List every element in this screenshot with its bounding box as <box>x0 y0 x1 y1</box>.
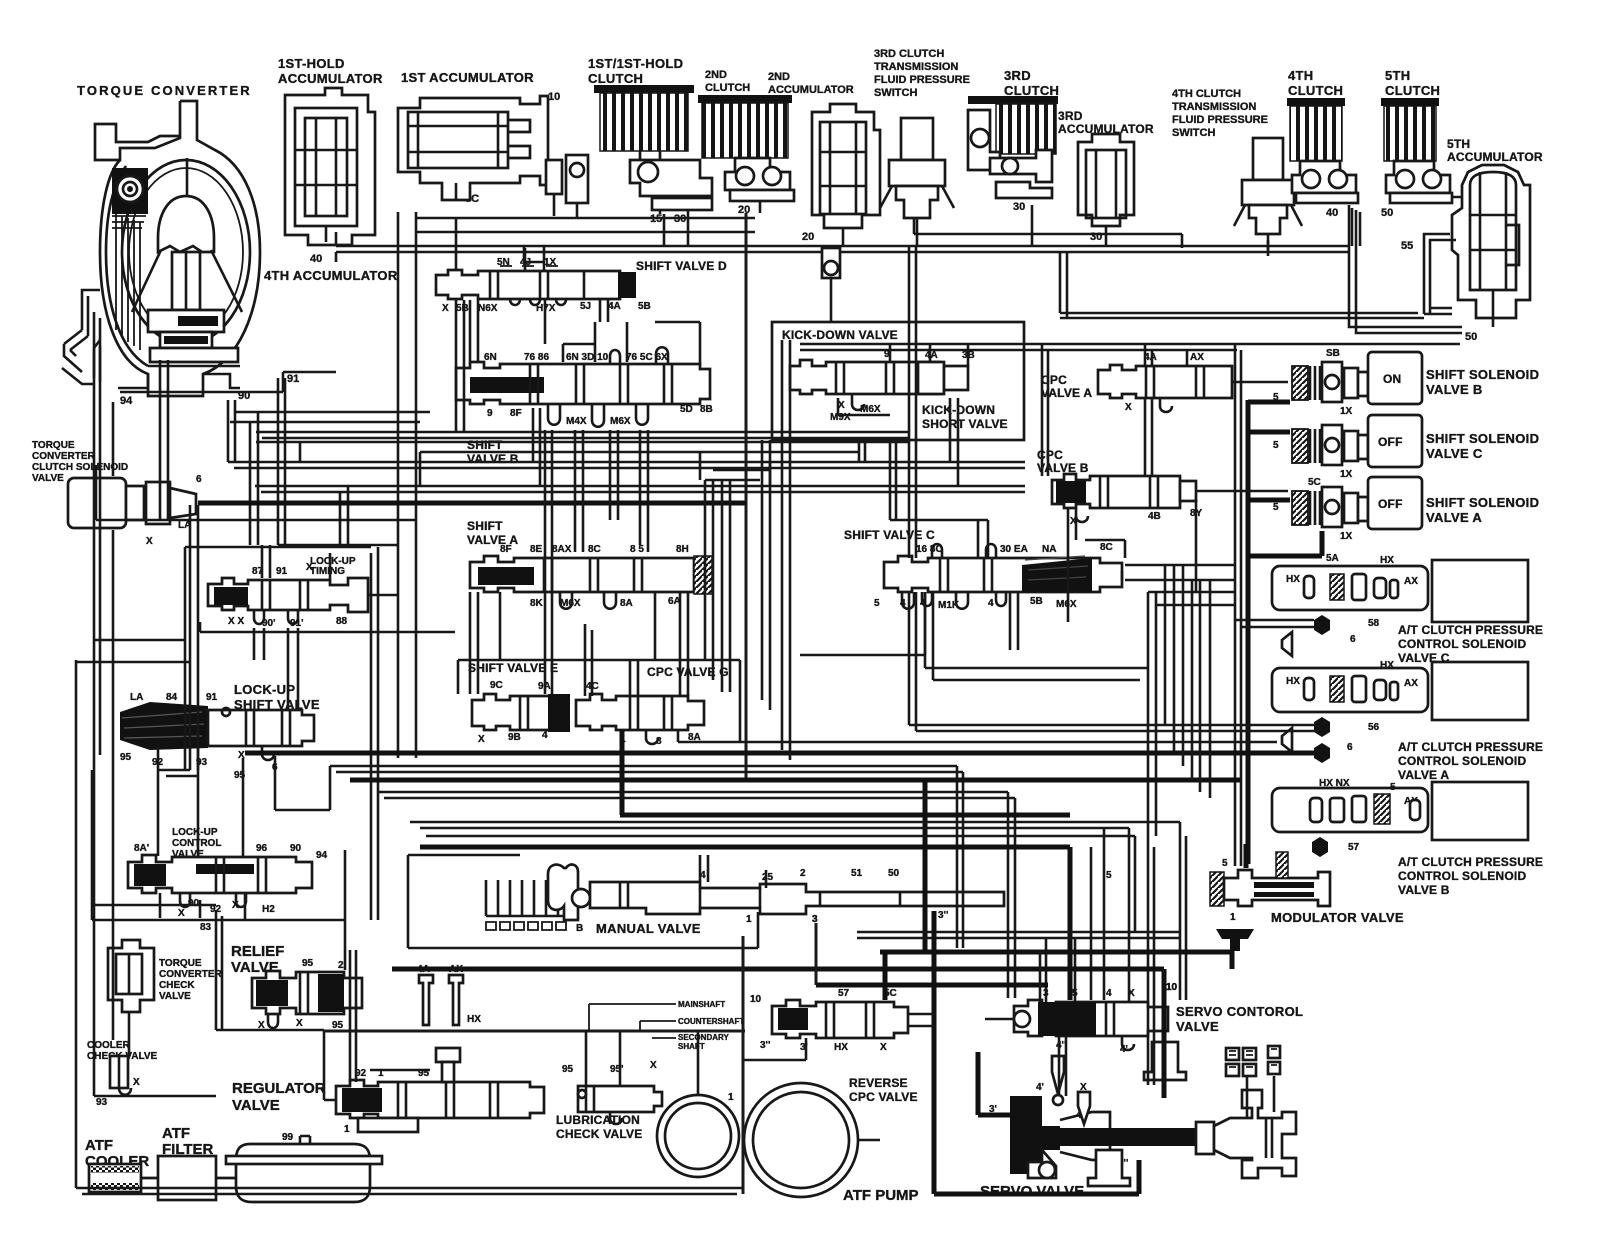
wire y822 <box>410 821 1180 824</box>
wire cpc B drops <box>1068 500 1196 622</box>
svg-text:2ND: 2ND <box>705 69 727 81</box>
neck striping <box>116 214 140 350</box>
bottom stack <box>148 310 224 332</box>
shift valve D <box>436 257 651 314</box>
svg-text:5TH: 5TH <box>1447 137 1470 151</box>
svg-text:76 86: 76 86 <box>524 352 549 363</box>
shift solenoid valve C assembly <box>1273 415 1422 480</box>
shift valve A <box>470 544 712 609</box>
2nd accumulator <box>812 104 880 242</box>
svg-text:3: 3 <box>812 914 818 925</box>
svg-text:50: 50 <box>1381 207 1393 219</box>
svg-text:AX: AX <box>1404 678 1418 689</box>
svg-text:A/T CLUTCH PRESSURE: A/T CLUTCH PRESSURE <box>1398 855 1543 869</box>
svg-text:TIMING: TIMING <box>310 566 345 577</box>
svg-text:MANUAL VALVE: MANUAL VALVE <box>596 921 701 936</box>
svg-text:1: 1 <box>1230 912 1236 923</box>
reverse cpc valve <box>772 988 908 1053</box>
wire pump circle2 to servo box <box>858 1139 880 1142</box>
svg-text:2: 2 <box>338 960 344 971</box>
5th accumulator <box>1452 165 1530 318</box>
svg-text:SHIFT SOLENOID: SHIFT SOLENOID <box>1426 431 1539 446</box>
svg-text:91: 91 <box>206 692 218 703</box>
svg-text:SWITCH: SWITCH <box>874 87 917 99</box>
wire left box bottom <box>94 1095 216 1098</box>
svg-text:TRANSMISSION: TRANSMISSION <box>874 61 958 73</box>
atf pump <box>657 1083 858 1197</box>
wire 30 line top <box>914 218 1182 248</box>
svg-text:CLUTCH: CLUTCH <box>705 82 750 94</box>
wire modulator to servo bus <box>1230 951 1235 969</box>
svg-text:A/T CLUTCH PRESSURE: A/T CLUTCH PRESSURE <box>1398 623 1543 637</box>
svg-text:LOCK-UP: LOCK-UP <box>172 827 218 838</box>
3rd clutch transmission fluid pressure switch <box>880 118 954 246</box>
svg-text:MAINSHAFT: MAINSHAFT <box>678 1000 725 1009</box>
svg-text:95: 95 <box>302 958 314 969</box>
node servo funnel 4'' <box>1052 1056 1064 1094</box>
shift valve C <box>874 542 1122 611</box>
svg-text:5TH: 5TH <box>1385 68 1410 83</box>
svg-text:OFF: OFF <box>1378 435 1403 449</box>
regulator valve <box>336 1048 544 1135</box>
wire cpc A right to solenoid B <box>1232 381 1288 384</box>
svg-text:VALVE: VALVE <box>159 991 191 1002</box>
svg-text:HX: HX <box>467 1014 481 1025</box>
wire shift valve C top risers <box>890 440 988 558</box>
svg-text:9: 9 <box>487 408 493 419</box>
comb ticks under <box>486 922 566 930</box>
svg-text:HX: HX <box>1380 660 1394 671</box>
svg-text:95: 95 <box>332 1020 344 1031</box>
wire bottom left box <box>216 910 222 1030</box>
svg-text:A/T CLUTCH PRESSURE: A/T CLUTCH PRESSURE <box>1398 740 1543 754</box>
wire left lower mesh <box>94 904 216 907</box>
wire 4th accum label line <box>335 252 338 262</box>
wire pair y792/798 <box>378 792 1015 998</box>
wire pair y766/772 <box>330 766 963 948</box>
wire thick stubs to shift solenoids <box>1248 402 1290 500</box>
modulator valve <box>1210 858 1330 923</box>
svg-text:5: 5 <box>1106 870 1112 881</box>
svg-text:1: 1 <box>728 1092 734 1103</box>
svg-text:51: 51 <box>851 868 863 879</box>
wire shift valve B top risers <box>563 322 627 362</box>
svg-text:M6X: M6X <box>1056 599 1077 610</box>
svg-text:9C: 9C <box>490 680 503 691</box>
svg-text:CONVERTER: CONVERTER <box>159 969 223 980</box>
lock-up timing valve (upper) <box>208 556 368 629</box>
svg-text:1: 1 <box>344 1124 350 1135</box>
svg-text:4A: 4A <box>925 350 938 361</box>
wire riser 4th/5th clutch pistons <box>1352 208 1360 246</box>
svg-text:5B: 5B <box>456 303 469 314</box>
svg-text:94: 94 <box>120 395 133 407</box>
svg-text:5B: 5B <box>638 301 651 312</box>
wire pair y932/938 <box>857 932 1180 938</box>
svg-text:CLUTCH: CLUTCH <box>1385 83 1440 98</box>
svg-text:6: 6 <box>1350 634 1356 645</box>
servo valve <box>989 1082 1296 1178</box>
junction bolts right side <box>1276 615 1330 878</box>
svg-text:10: 10 <box>750 994 762 1005</box>
wire bus y462 y486 <box>228 461 1025 464</box>
svg-text:84: 84 <box>166 692 178 703</box>
cooler check valve <box>96 1056 140 1108</box>
wire left bus y520 y545 <box>96 519 415 522</box>
svg-text:SERVO CONTOROL: SERVO CONTOROL <box>1176 1004 1303 1019</box>
node ball check under 2nd accumulator <box>822 248 840 278</box>
svg-text:AX: AX <box>1404 576 1418 587</box>
svg-text:4': 4' <box>1120 1044 1128 1055</box>
wire kick-down lower stubs <box>858 440 861 462</box>
svg-text:LOCK-UP: LOCK-UP <box>234 682 295 697</box>
svg-text:ATF PUMP: ATF PUMP <box>843 1187 919 1204</box>
svg-text:95: 95 <box>562 1064 574 1075</box>
svg-text:SHAFT: SHAFT <box>678 1042 705 1051</box>
wire shift valve D drops <box>456 248 545 432</box>
svg-text:X: X <box>296 1018 303 1029</box>
wire doubled mid buses <box>262 437 908 440</box>
1st-hold / 4th accumulator stack <box>285 88 375 245</box>
lock-up control valve <box>128 843 328 933</box>
svg-text:1ST ACCUMULATOR: 1ST ACCUMULATOR <box>401 70 534 85</box>
svg-text:AX: AX <box>1190 352 1204 363</box>
svg-text:CHECK VALVE: CHECK VALVE <box>556 1127 642 1141</box>
wire mid-right mesh rows <box>925 668 1148 680</box>
wire modulator link <box>1244 844 1249 868</box>
svg-text:X: X <box>133 1077 140 1088</box>
wire extra mesh rows between valve B and A <box>256 441 908 444</box>
wire shift E/G enclosure <box>458 660 740 742</box>
wire mid bundle verticals x705-790 <box>705 340 790 760</box>
svg-text:93: 93 <box>96 1097 108 1108</box>
wire shift valve C bottom drops <box>800 592 1018 655</box>
svg-text:8C: 8C <box>1100 542 1113 553</box>
wire pair x545 down to shift valve E <box>545 430 552 694</box>
wire bottom double line <box>76 1187 743 1190</box>
wire cpc A to cpc B pair <box>1145 398 1152 476</box>
wire left y640 <box>94 639 185 642</box>
wire vertical pair from 1st accumulator area <box>397 212 400 758</box>
wire riser 1st/1st-hold clutch <box>664 210 688 246</box>
svg-text:8B: 8B <box>700 404 713 415</box>
wire shaft leader lines <box>589 1004 676 1038</box>
svg-text:HX: HX <box>834 1042 848 1053</box>
svg-text:VALVE B: VALVE B <box>1426 382 1483 397</box>
svg-text:1: 1 <box>746 914 752 925</box>
svg-text:91: 91 <box>287 373 299 385</box>
loops under shift valve B <box>548 404 560 425</box>
wire manual valve box <box>408 855 758 948</box>
svg-text:2: 2 <box>800 868 806 879</box>
wire relief to regulator pair <box>350 973 356 1082</box>
svg-text:X X: X X <box>228 616 244 627</box>
wire bus y313/318 <box>1060 313 1424 318</box>
kick-down valve box and spool <box>772 322 1024 440</box>
svg-text:3'': 3'' <box>938 910 948 921</box>
wire top bus pair y218/232 <box>415 217 755 220</box>
tc outlet pipes <box>82 290 100 336</box>
wire thick y969 <box>392 967 1164 972</box>
wire thick servo box <box>934 911 1139 1194</box>
svg-text:40: 40 <box>1326 207 1338 219</box>
wire servo 4'' link <box>1059 1036 1066 1096</box>
svg-text:VALVE A: VALVE A <box>1398 768 1449 782</box>
svg-text:8: 8 <box>656 736 662 747</box>
bolt on top <box>436 1048 460 1062</box>
svg-text:1X: 1X <box>1340 406 1353 417</box>
svg-text:SHIFT: SHIFT <box>467 519 503 533</box>
svg-text:OFF: OFF <box>1378 497 1403 511</box>
svg-text:X: X <box>1125 402 1132 413</box>
svg-text:8E: 8E <box>530 544 543 555</box>
small connector boxes above servo right <box>1226 1046 1280 1076</box>
wire kick-down lower mesh <box>838 398 896 520</box>
wire bus y432 <box>256 431 908 434</box>
wire pair y828/836 <box>420 828 1135 932</box>
svg-text:30 EA: 30 EA <box>1000 544 1028 555</box>
svg-text:5: 5 <box>1273 502 1279 513</box>
svg-text:20: 20 <box>738 204 750 216</box>
wire cooler-filter-pan links <box>141 1177 236 1180</box>
3rd accumulator <box>1078 134 1134 238</box>
wire y742 <box>678 730 1277 742</box>
svg-text:4': 4' <box>1036 1082 1044 1093</box>
svg-text:4TH: 4TH <box>1288 68 1313 83</box>
wire lock-up control valve drains <box>160 893 200 918</box>
svg-text:NA: NA <box>1042 544 1056 555</box>
svg-text:SHIFT VALVE D: SHIFT VALVE D <box>636 259 727 273</box>
svg-text:VALVE A: VALVE A <box>1426 510 1482 525</box>
wire servo control top entries <box>1040 932 1129 1002</box>
wire verticals x1148/1154 <box>1148 836 1154 1085</box>
svg-text:VALVE: VALVE <box>1176 1019 1219 1034</box>
svg-text:HX: HX <box>1380 555 1394 566</box>
shift valve B <box>456 347 713 427</box>
svg-text:55: 55 <box>1401 240 1413 252</box>
svg-text:16 8C: 16 8C <box>916 544 943 555</box>
wire bus y344/350 <box>800 343 1460 346</box>
svg-text:LA: LA <box>130 692 143 703</box>
svg-text:COUNTERSHAFT: COUNTERSHAFT <box>678 1017 744 1026</box>
svg-text:4TH ACCUMULATOR: 4TH ACCUMULATOR <box>264 268 398 283</box>
svg-text:X: X <box>442 303 449 314</box>
svg-text:TORQUE CONVERTER: TORQUE CONVERTER <box>77 83 250 98</box>
svg-text:LUBRICATION: LUBRICATION <box>556 1113 640 1127</box>
wire riser 3rd clutch <box>1031 205 1034 246</box>
svg-text:REVERSE: REVERSE <box>849 1076 908 1090</box>
svg-text:5: 5 <box>1222 858 1228 869</box>
svg-text:58: 58 <box>1368 618 1380 629</box>
svg-text:94: 94 <box>316 850 328 861</box>
wire manual valve top riser <box>700 855 708 882</box>
svg-text:96: 96 <box>256 843 268 854</box>
svg-text:X: X <box>178 908 185 919</box>
svg-text:VALVE C: VALVE C <box>1426 446 1483 461</box>
svg-text:X: X <box>650 1060 657 1071</box>
svg-text:8C: 8C <box>588 544 601 555</box>
svg-text:CLUTCH: CLUTCH <box>1288 83 1343 98</box>
svg-text:MODULATOR VALVE: MODULATOR VALVE <box>1271 910 1404 925</box>
wire pair x350/356 up to manual box <box>350 950 356 973</box>
wire TC outlet left verticals <box>93 312 96 1096</box>
wire riser 4th pressure switch <box>1267 240 1270 250</box>
svg-text:5: 5 <box>1273 440 1279 451</box>
3rd clutch pack <box>968 96 1058 198</box>
svg-text:M6X: M6X <box>860 404 881 415</box>
4th clutch transmission fluid pressure switch <box>1234 138 1302 256</box>
wire shift valve B bottom drops <box>533 408 618 552</box>
svg-text:8F: 8F <box>510 408 522 419</box>
inner dome <box>158 196 214 252</box>
svg-text:X: X <box>146 536 153 547</box>
wire valve A to cpc G risers <box>655 592 688 696</box>
svg-text:KICK-DOWN VALVE: KICK-DOWN VALVE <box>782 328 898 342</box>
svg-text:SHIFT VALVE C: SHIFT VALVE C <box>844 528 935 542</box>
wire funnel under modulator <box>1216 929 1254 951</box>
svg-text:88: 88 <box>336 616 348 627</box>
svg-text:FLUID PRESSURE: FLUID PRESSURE <box>1172 114 1268 126</box>
svg-text:57: 57 <box>1348 842 1360 853</box>
wire 58 pair from bus to bolt <box>1235 620 1314 627</box>
svg-text:95': 95' <box>610 1064 624 1075</box>
svg-text:VALVE: VALVE <box>32 473 64 484</box>
svg-text:1: 1 <box>378 1068 384 1079</box>
cpc valve A <box>1098 352 1232 413</box>
wire thick bus T1 y753 <box>245 751 1320 756</box>
svg-text:50: 50 <box>888 868 900 879</box>
svg-text:VALVE: VALVE <box>232 1097 280 1114</box>
svg-text:4: 4 <box>988 598 994 609</box>
wire thick bus y847 <box>420 845 1070 850</box>
svg-text:56: 56 <box>1368 722 1380 733</box>
svg-text:X: X <box>478 734 485 745</box>
svg-text:5A: 5A <box>1326 553 1339 564</box>
node servo hose cup <box>1144 1042 1186 1080</box>
wire servo control left link <box>985 1018 1014 1021</box>
wire TC bottom links <box>120 372 336 392</box>
wire 1st-hold accum riser <box>335 232 338 246</box>
svg-text:1ST-HOLD: 1ST-HOLD <box>278 56 345 71</box>
svg-text:1X: 1X <box>544 257 557 268</box>
wire right bundle connectors <box>1122 565 1235 580</box>
lubrication check valve <box>562 1060 662 1124</box>
svg-text:CLUTCH: CLUTCH <box>588 71 643 86</box>
wire thick bus T2 y780 <box>350 778 1240 783</box>
wire bundle tops join <box>705 470 770 480</box>
wire regulator drain left <box>324 1031 336 1100</box>
servo control valve <box>1014 982 1178 1055</box>
cpc valve G <box>576 694 704 747</box>
wire servo control risers <box>1046 828 1104 1002</box>
svg-text:4A: 4A <box>417 964 430 975</box>
svg-text:5J: 5J <box>580 301 591 312</box>
svg-text:8H: 8H <box>676 544 689 555</box>
svg-text:SB: SB <box>1326 348 1340 359</box>
wire thick vertical x743 <box>742 936 745 1194</box>
svg-text:HX NX: HX NX <box>1319 778 1350 789</box>
svg-text:6: 6 <box>196 474 202 485</box>
svg-text:M9X: M9X <box>830 412 851 423</box>
svg-text:5: 5 <box>1390 782 1396 793</box>
svg-text:5N: 5N <box>497 257 510 268</box>
torque converter check valve <box>108 940 154 1022</box>
wire mid risers valve B top <box>655 322 700 364</box>
svg-text:30: 30 <box>1013 201 1025 213</box>
svg-text:3RD CLUTCH: 3RD CLUTCH <box>874 48 944 60</box>
wire thick solenoid feed vertical x1248 <box>1246 400 1251 864</box>
wire 55 line <box>1424 234 1456 314</box>
small check valves under 1st accumulator <box>546 155 588 217</box>
svg-text:8A: 8A <box>620 598 633 609</box>
wire valve A to E verticals <box>470 592 500 694</box>
wire extra drops from mid buses <box>300 442 770 486</box>
svg-text:6N: 6N <box>484 352 497 363</box>
wire 50 line pair down right <box>1349 205 1462 333</box>
1st/1st-hold clutch pack <box>594 85 712 214</box>
svg-text:VALVE B: VALVE B <box>1398 883 1450 897</box>
svg-text:VALVE B: VALVE B <box>467 452 519 466</box>
svg-text:4: 4 <box>1106 988 1112 999</box>
a/t cpc solenoid assembly C <box>1272 560 1528 629</box>
svg-text:8AX: 8AX <box>552 544 572 555</box>
wire shift valve D risers to valve B <box>470 300 608 362</box>
svg-text:5B: 5B <box>1030 596 1043 607</box>
svg-text:76 5C 6X: 76 5C 6X <box>626 352 668 363</box>
svg-text:3RD: 3RD <box>1004 68 1031 83</box>
svg-text:TORQUE: TORQUE <box>159 958 202 969</box>
svg-text:25: 25 <box>762 872 774 883</box>
svg-text:3'': 3'' <box>760 1040 770 1051</box>
svg-text:20: 20 <box>802 231 814 243</box>
svg-text:95: 95 <box>418 1068 430 1079</box>
node servo funnel 4' <box>1078 1092 1090 1124</box>
wire main top bus y246/252 <box>336 245 1350 248</box>
svg-text:95: 95 <box>120 752 132 763</box>
wire 5A thick from solenoid A down <box>1248 531 1322 556</box>
wire reverse cpc outputs <box>743 1038 806 1060</box>
svg-text:CONTROL SOLENOID: CONTROL SOLENOID <box>1398 869 1526 883</box>
svg-text:SHIFT SOLENOID: SHIFT SOLENOID <box>1426 495 1539 510</box>
node AX fittings on bus <box>419 975 433 1025</box>
svg-text:CLUTCH: CLUTCH <box>1004 83 1059 98</box>
svg-text:TRANSMISSION: TRANSMISSION <box>1172 101 1256 113</box>
wire small boxes drop <box>1247 1076 1274 1118</box>
svg-text:CPC VALVE: CPC VALVE <box>849 1090 918 1104</box>
svg-text:ACCUMULATOR: ACCUMULATOR <box>1447 150 1543 164</box>
wire 5th accum bottom stub <box>1492 318 1495 327</box>
svg-text:4B: 4B <box>1148 511 1161 522</box>
shift valve E <box>472 680 599 745</box>
wire lock-up timing valve risers <box>262 545 330 580</box>
svg-text:3RD: 3RD <box>1058 109 1083 123</box>
wire cpc A risers <box>1145 344 1187 366</box>
dark swirl cluster <box>112 168 148 228</box>
svg-text:SHIFT SOLENOID: SHIFT SOLENOID <box>1426 367 1539 382</box>
wire main right vertical pair x1235/1241 <box>1234 344 1237 866</box>
lock-up shift valve <box>120 692 314 781</box>
wire thick TCC solenoid line y503 <box>198 501 746 506</box>
wire pair x1042 to cpc B <box>1042 344 1048 476</box>
wire reverse cpc right link <box>908 1014 934 1026</box>
a/t cpc solenoid assembly A <box>1272 660 1528 733</box>
wire 25 riser <box>765 870 768 888</box>
torque converter clutch solenoid valve <box>68 474 202 547</box>
svg-text:ON: ON <box>1383 372 1401 386</box>
wire thick vertical x746 (20 line) <box>745 213 748 780</box>
manual valve <box>486 865 1112 934</box>
svg-text:4A: 4A <box>608 301 621 312</box>
